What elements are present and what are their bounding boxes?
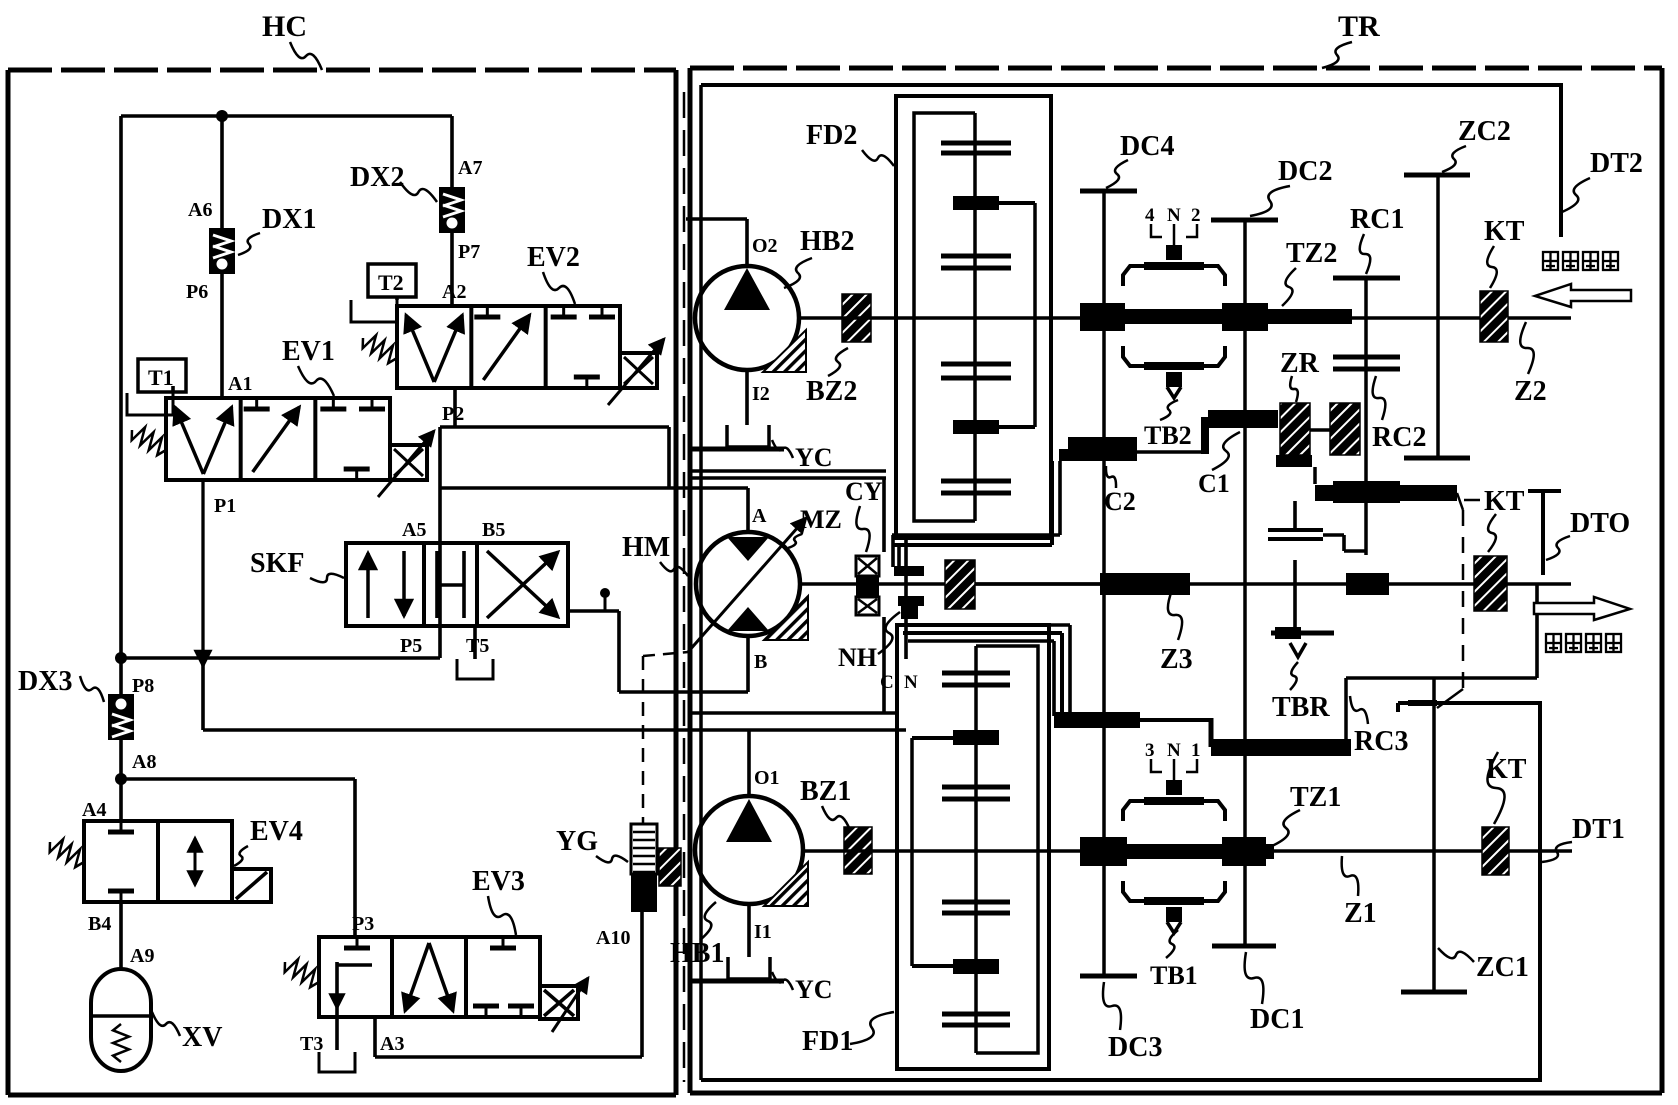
- text power output: [1546, 634, 1561, 652]
- svg-text:HC: HC: [262, 10, 307, 43]
- carrier link FD1 to Z3: [897, 625, 1213, 728]
- clutch housing dashed line KT: [1437, 493, 1463, 708]
- output shaft thick section TZ1: [1085, 844, 1274, 859]
- tank T2: [351, 300, 397, 322]
- coupling on middle shaft: [945, 560, 975, 609]
- svg-text:TZ1: TZ1: [1290, 782, 1341, 813]
- leader HM: [660, 562, 688, 576]
- svg-text:DX2: DX2: [350, 162, 404, 193]
- label P8: [132, 675, 154, 697]
- label B5: [482, 519, 505, 541]
- svg-text:O2: O2: [752, 235, 778, 257]
- valve EV4 spring: [50, 839, 84, 867]
- label A6: [188, 199, 212, 221]
- hub DC3 on output shaft: [1080, 837, 1127, 866]
- accumulator XV: [91, 969, 151, 1071]
- FD2 gear pair second: [941, 256, 1011, 268]
- gear NH: [894, 538, 924, 659]
- label KT middle: [1484, 486, 1525, 517]
- valve EV4 flow arrow: [194, 838, 197, 885]
- leader Z1: [1342, 856, 1359, 896]
- hub DC1 on output shaft: [1222, 837, 1266, 866]
- coupling KT output: [1482, 827, 1509, 875]
- svg-text:TB2: TB2: [1144, 421, 1192, 450]
- leader DC4: [1106, 160, 1128, 188]
- leader MZ: [788, 534, 802, 548]
- label T3: [300, 1033, 323, 1055]
- svg-text:C1: C1: [1198, 469, 1230, 498]
- wire top bus: [121, 114, 452, 118]
- valve SKF cross arrows: [487, 551, 558, 618]
- wire left bus upper: [119, 116, 123, 658]
- label YC lower: [795, 975, 833, 1004]
- label I1: [754, 921, 772, 943]
- wire P2 run: [440, 388, 669, 488]
- clutch 4 N 2 selector: [1123, 205, 1225, 286]
- wire P5 vertical through SKF: [438, 427, 442, 658]
- svg-text:HM: HM: [622, 532, 670, 563]
- FD1 gear pair top: [942, 673, 1010, 685]
- node B branch: [600, 588, 610, 598]
- svg-text:2: 2: [1191, 205, 1201, 226]
- svg-text:I2: I2: [752, 383, 770, 405]
- svg-text:C2: C2: [1104, 487, 1136, 516]
- gear ZC1 bottom bar: [1401, 990, 1467, 995]
- svg-text:TBR: TBR: [1272, 692, 1330, 723]
- leader CY: [856, 506, 869, 552]
- svg-text:SKF: SKF: [250, 548, 304, 579]
- svg-text:DC3: DC3: [1108, 1032, 1162, 1063]
- clutch 3 N 1 lower half: [1123, 881, 1225, 933]
- svg-text:Z2: Z2: [1514, 376, 1547, 407]
- FD2 gear pair third: [941, 364, 1011, 378]
- label TB2: [1144, 421, 1192, 450]
- valve EV2 position-2 symbols: [474, 306, 529, 380]
- svg-text:DTO: DTO: [1570, 508, 1630, 539]
- svg-text:EV1: EV1: [282, 336, 335, 367]
- TR partition upper: [690, 471, 886, 478]
- label C2: [1104, 487, 1136, 516]
- wire T1 to EV1: [171, 386, 175, 393]
- svg-text:XV: XV: [182, 1022, 222, 1053]
- gear RC1 top bar: [1333, 276, 1400, 281]
- leader BZ1: [822, 806, 850, 830]
- svg-text:A4: A4: [82, 799, 106, 821]
- svg-text:B5: B5: [482, 519, 505, 541]
- leader TB1: [1166, 930, 1178, 958]
- valve EV2 spring: [363, 335, 397, 363]
- label A8: [132, 751, 156, 773]
- svg-text:YC: YC: [795, 975, 833, 1004]
- gear axis DC2-DC1: [1243, 220, 1247, 946]
- svg-text:KT: KT: [1486, 754, 1527, 785]
- valve EV2 position-3 symbols: [551, 306, 615, 388]
- svg-text:T2: T2: [378, 270, 404, 295]
- tank T1: [127, 393, 173, 415]
- wire HM port B: [746, 636, 750, 692]
- label CY: [845, 477, 883, 506]
- leader YC upper: [772, 440, 793, 458]
- wire T5 down: [473, 626, 477, 659]
- svg-text:YG: YG: [556, 826, 598, 857]
- svg-text:A2: A2: [442, 281, 466, 303]
- coupling BZ1: [844, 827, 872, 874]
- svg-text:N: N: [904, 672, 918, 693]
- label A port: [752, 505, 767, 527]
- leader KT output: [1487, 752, 1504, 824]
- link RC3 up: [1344, 678, 1348, 739]
- node P8 junction: [115, 652, 127, 664]
- leader DX1: [238, 233, 260, 255]
- wire DX1 to EV1 port A1: [220, 274, 224, 398]
- svg-text:KT: KT: [1484, 486, 1525, 517]
- valve EV1 position-2 symbols: [244, 398, 300, 472]
- svg-text:NH: NH: [838, 643, 877, 672]
- output shaft Z1 line: [1049, 849, 1572, 853]
- actuator YG plunger: [631, 824, 657, 912]
- leader RC3: [1350, 696, 1368, 724]
- svg-text:HB1: HB1: [670, 938, 724, 969]
- svg-text:B4: B4: [88, 913, 111, 935]
- valve EV1 position-3 symbols: [320, 398, 385, 480]
- gear axis DC4-C2-DC3: [1102, 191, 1106, 976]
- label EV3: [472, 866, 525, 897]
- gear axis ZC1: [1432, 678, 1436, 992]
- HM variable arrow: [643, 518, 806, 656]
- svg-text:I1: I1: [754, 921, 772, 943]
- label DT2: [1590, 148, 1643, 179]
- power output arrow: [1534, 597, 1630, 620]
- label BZ1: [800, 776, 851, 807]
- TBR V mark: [1290, 643, 1306, 657]
- leader EV1: [298, 366, 334, 396]
- svg-text:P2: P2: [442, 403, 464, 425]
- wire EV1 port P1 down: [201, 480, 204, 666]
- brake drum TB2 bar: [1059, 437, 1208, 461]
- valve EV3 body: [319, 937, 540, 1017]
- clutch plates RC2: [1333, 357, 1400, 369]
- svg-text:DC4: DC4: [1120, 131, 1174, 162]
- throttle-check DX3: [108, 694, 134, 740]
- leader TZ1: [1272, 810, 1300, 846]
- valve EV3 position-3 symbols: [473, 937, 534, 1017]
- junction node: [216, 110, 228, 122]
- label KT output: [1486, 754, 1527, 785]
- wire return upper: [692, 711, 897, 715]
- planetary FD1 housing: [897, 625, 1049, 1069]
- leader ZC2: [1442, 146, 1466, 172]
- gear ZC2 bottom bar: [1404, 456, 1470, 461]
- leader DC3: [1103, 982, 1121, 1030]
- label P1: [214, 495, 236, 517]
- label P7: [458, 241, 480, 263]
- leader ZC1: [1438, 948, 1474, 962]
- wire SKF A to HM port A: [440, 486, 748, 490]
- svg-text:ZC2: ZC2: [1458, 116, 1511, 147]
- coupling BZ2: [842, 294, 871, 342]
- wire HB2 port I2: [745, 370, 749, 425]
- input shaft Z2 line: [1051, 316, 1571, 320]
- node A8 junction: [115, 773, 127, 785]
- label HB1: [670, 938, 724, 969]
- pump HB2: [695, 266, 806, 372]
- leader DC2: [1250, 186, 1290, 216]
- gear on drum: [1268, 501, 1323, 539]
- label Z3: [1160, 644, 1193, 675]
- gear DC3 bottom bar: [1080, 974, 1137, 979]
- label A1: [228, 373, 252, 395]
- svg-text:4: 4: [1145, 205, 1155, 226]
- output drum bar RC2-KT: [1315, 481, 1457, 503]
- wire tank return lower: [203, 658, 906, 730]
- wire DX3 to A8: [119, 740, 123, 779]
- label DX3: [18, 666, 72, 697]
- planetary FD2 inner frame: [914, 113, 975, 521]
- FD1 ring coupling lower: [912, 959, 999, 974]
- leader HB1: [700, 902, 716, 940]
- svg-text:N: N: [1167, 740, 1181, 761]
- leader TBR: [1290, 662, 1298, 690]
- shaft HB2 to FD2: [799, 316, 897, 320]
- leader DT1: [1542, 842, 1572, 862]
- text power input: [1543, 252, 1558, 270]
- svg-text:A6: A6: [188, 199, 212, 221]
- valve EV2 proportional solenoid: [608, 339, 664, 405]
- hub on middle shaft right: [1346, 573, 1389, 595]
- link C1 bar: [1201, 410, 1278, 454]
- svg-text:HB2: HB2: [800, 226, 854, 257]
- label KT input: [1484, 216, 1525, 247]
- hub Z3 on middle shaft: [1100, 573, 1190, 595]
- svg-text:O1: O1: [754, 767, 780, 789]
- gear ZC2 top bar: [1404, 173, 1470, 178]
- control rod YG dashed: [642, 656, 645, 824]
- leader SKF: [310, 574, 344, 583]
- bracket DTO: [1528, 491, 1561, 575]
- wire HB2 port O2: [686, 219, 747, 266]
- valve EV2 position-1 arrows: [406, 315, 462, 382]
- svg-text:TR: TR: [1338, 10, 1380, 43]
- label ZR: [1280, 348, 1320, 379]
- gear stub DT1 top: [1398, 703, 1437, 712]
- HC hydraulic-control box frame: [8, 70, 676, 1095]
- label I2: [752, 383, 770, 405]
- leader Z3: [1168, 590, 1182, 640]
- label EV2: [527, 242, 580, 273]
- wire EV4 B4 to accumulator: [119, 902, 123, 969]
- FD2 gear pair top: [941, 143, 1011, 153]
- ZR lower link: [1276, 455, 1315, 484]
- leader FD2: [862, 150, 894, 166]
- gear axis ZC2: [1436, 175, 1440, 458]
- FD2 right connector: [1033, 203, 1037, 427]
- svg-text:A8: A8: [132, 751, 156, 773]
- svg-text:DC2: DC2: [1278, 156, 1332, 187]
- gear axis RC1: [1364, 278, 1368, 555]
- svg-text:BZ2: BZ2: [806, 376, 857, 407]
- leader BZ2: [828, 348, 848, 376]
- svg-text:A5: A5: [402, 519, 426, 541]
- label XV: [182, 1022, 222, 1053]
- throttle-check DX1: [209, 228, 235, 274]
- label Z2: [1514, 376, 1547, 407]
- svg-text:MZ: MZ: [800, 505, 842, 534]
- middle shaft Z3 line: [975, 582, 1571, 586]
- leader KT middle: [1488, 514, 1496, 552]
- gear DC1 bottom bar: [1212, 944, 1276, 949]
- valve EV2 body: [397, 306, 620, 388]
- shaft HM to CY: [800, 582, 945, 586]
- svg-text:RC1: RC1: [1350, 204, 1404, 235]
- power input arrow: [1535, 284, 1631, 307]
- label TZ2: [1286, 238, 1337, 269]
- label O2: [752, 235, 778, 257]
- valve EV1 proportional solenoid: [378, 431, 434, 497]
- label B4: [88, 913, 111, 935]
- port T2 box: [368, 264, 416, 297]
- svg-text:FD2: FD2: [806, 120, 857, 151]
- wire SKF B branch: [568, 611, 619, 692]
- FD1 ring coupling upper: [912, 730, 999, 745]
- label NH: [838, 643, 877, 672]
- label A10: [596, 927, 630, 949]
- label RC1: [1350, 204, 1404, 235]
- svg-text:N: N: [1167, 205, 1181, 226]
- leader RC2: [1373, 376, 1386, 420]
- label FD1: [802, 1026, 853, 1057]
- wire A7 branch to DX2: [450, 116, 454, 187]
- svg-text:CY: CY: [845, 477, 883, 506]
- valve EV3 position-1 symbols: [337, 937, 372, 1050]
- svg-text:T5: T5: [466, 635, 489, 657]
- label A9: [130, 945, 154, 967]
- label C1: [1198, 469, 1230, 498]
- valve EV4 blocked ports: [108, 821, 134, 902]
- FD2 gear pair bottom: [941, 481, 1011, 493]
- tank T3: [319, 1052, 355, 1072]
- hub DC4 on input shaft: [1080, 303, 1125, 331]
- motor HM: [696, 532, 808, 640]
- leader YC lower: [772, 972, 793, 990]
- label YG: [556, 826, 598, 857]
- label MZ: [800, 505, 842, 534]
- svg-text:ZC1: ZC1: [1476, 952, 1529, 983]
- valve EV3 solenoid: [540, 978, 588, 1032]
- TR inner wall: [699, 85, 703, 1080]
- wire HM port A: [746, 488, 750, 532]
- pump HB1: [695, 796, 808, 906]
- tank YC upper: [688, 425, 784, 449]
- coupling ZR right: [1330, 403, 1360, 455]
- label HM: [622, 532, 670, 563]
- wire EV3 A3 to YG: [375, 912, 642, 1057]
- label P3: [352, 913, 374, 935]
- svg-text:DT2: DT2: [1590, 148, 1643, 179]
- label EV4: [250, 816, 303, 847]
- hub DC2 on input shaft: [1222, 303, 1268, 331]
- label T5: [466, 635, 489, 657]
- valve EV4 body: [84, 821, 232, 902]
- label A3: [380, 1033, 404, 1055]
- svg-text:ZR: ZR: [1280, 348, 1320, 379]
- label DC4: [1120, 131, 1174, 162]
- leader ZR: [1290, 376, 1298, 402]
- svg-text:DC1: DC1: [1250, 1004, 1304, 1035]
- label FD2: [806, 120, 857, 151]
- leader C1: [1212, 432, 1240, 470]
- svg-text:P7: P7: [458, 241, 480, 263]
- valve SKF check arrows: [368, 551, 404, 618]
- label DX1: [262, 204, 316, 235]
- svg-text:Z1: Z1: [1344, 898, 1377, 929]
- wire B to HM port B: [619, 690, 748, 694]
- leader DX2: [400, 182, 437, 202]
- svg-text:T3: T3: [300, 1033, 323, 1055]
- label P5: [400, 635, 422, 657]
- dash label KT middle: [1464, 499, 1480, 502]
- label TBR: [1272, 692, 1330, 723]
- label DT1: [1572, 814, 1625, 845]
- wire Z1 to DTO: [1346, 584, 1537, 678]
- svg-text:P1: P1: [214, 495, 236, 517]
- label A4: [82, 799, 106, 821]
- svg-text:RC3: RC3: [1354, 726, 1408, 757]
- leader EV4: [234, 846, 248, 866]
- label P2: [442, 403, 464, 425]
- valve SKF center H: [437, 551, 464, 618]
- coupling KT middle: [1474, 556, 1507, 611]
- valve EV4 solenoid: [232, 869, 271, 902]
- valve EV3 spring: [285, 959, 319, 987]
- svg-text:BZ1: BZ1: [800, 776, 851, 807]
- svg-text:DX3: DX3: [18, 666, 72, 697]
- wire T2 to EV2: [395, 297, 399, 300]
- leader EV2: [543, 272, 575, 304]
- tank YC lower: [688, 957, 784, 981]
- link to RC1: [1323, 535, 1366, 551]
- gear TBR bar: [1271, 560, 1334, 639]
- leader XV: [152, 1012, 180, 1036]
- bracket DT2: [701, 85, 1561, 237]
- valve EV1 position-1 arrows: [175, 407, 232, 474]
- label B port: [754, 651, 767, 673]
- leader DTO: [1546, 536, 1570, 560]
- svg-text:A10: A10: [596, 927, 630, 949]
- leader DT2: [1562, 178, 1590, 212]
- label ZC2: [1458, 116, 1511, 147]
- coupling hatch at YG: [659, 848, 681, 886]
- label O1: [754, 767, 780, 789]
- label YC upper: [795, 443, 833, 472]
- leader C2: [1106, 466, 1116, 488]
- FD1 gear pair second: [942, 787, 1010, 799]
- FD1 output shaft crossing: [897, 849, 1049, 853]
- label TB1: [1150, 961, 1198, 990]
- svg-text:A3: A3: [380, 1033, 404, 1055]
- leader RC1: [1360, 234, 1371, 274]
- leader Z2: [1520, 322, 1534, 374]
- carrier link FD2 to clutch: [892, 461, 1060, 567]
- label EV1: [282, 336, 335, 367]
- svg-text:RC2: RC2: [1372, 422, 1426, 453]
- label BZ2: [806, 376, 857, 407]
- label DX2: [350, 162, 404, 193]
- label TZ1: [1290, 782, 1341, 813]
- leader HB2: [784, 258, 812, 288]
- label RC2: [1372, 422, 1426, 453]
- svg-text:TZ2: TZ2: [1286, 238, 1337, 269]
- svg-text:T1: T1: [148, 365, 174, 390]
